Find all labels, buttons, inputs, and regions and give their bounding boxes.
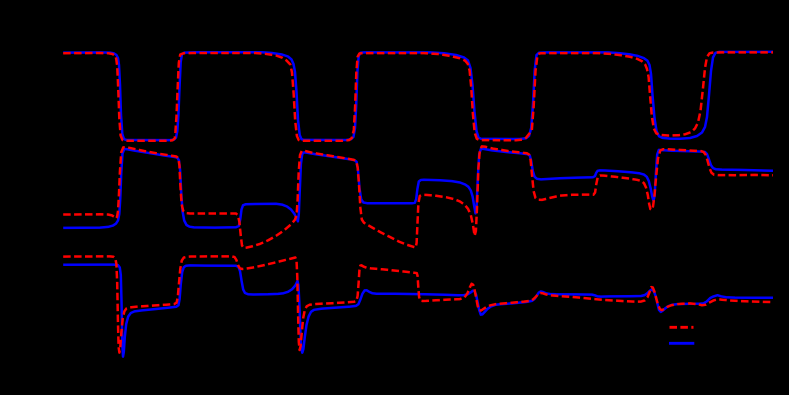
trace row2 blue (model V2) bbox=[63, 149, 773, 228]
trace row1 red dashed (data V1) bbox=[63, 52, 773, 140]
trace row1 blue (model V1) bbox=[63, 52, 773, 140]
trace row3 red dashed (data V3) bbox=[63, 256, 773, 352]
legend sample red dashed bbox=[670, 326, 694, 329]
trace row3 blue (model V3) bbox=[63, 265, 773, 357]
legend sample blue solid bbox=[669, 342, 694, 345]
trace row2 red dashed (data V2) bbox=[63, 146, 773, 248]
